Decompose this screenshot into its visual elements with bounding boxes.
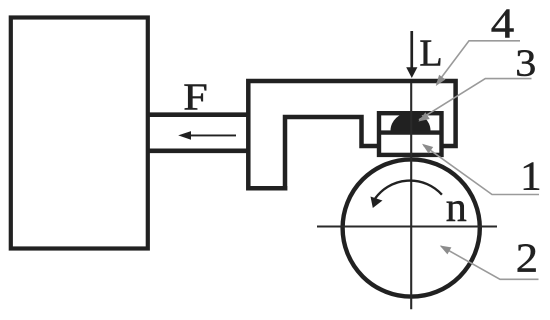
leader arrowhead 4 <box>436 75 446 86</box>
leader line 1 <box>424 145 540 194</box>
loading frame 4 inner path <box>285 117 379 191</box>
svg-text:2: 2 <box>516 235 538 281</box>
force F arrow <box>178 131 236 140</box>
leader line 2 <box>441 246 539 279</box>
holder box <box>379 113 442 155</box>
push rod upper wire <box>148 112 250 117</box>
leader line 3 <box>419 79 532 120</box>
crosshair horizontal <box>317 226 497 228</box>
svg-text:1: 1 <box>520 152 542 198</box>
disc 2 circle <box>343 159 480 296</box>
push rod lower wire <box>148 149 250 154</box>
ball 3 dome <box>391 112 431 130</box>
svg-text:3: 3 <box>515 42 536 84</box>
crosshair vertical <box>410 83 412 309</box>
svg-text:4: 4 <box>491 2 515 48</box>
rotation arrowhead <box>371 197 383 209</box>
svg-text:n: n <box>446 185 467 231</box>
load L arrow <box>406 31 417 78</box>
leader line 4 <box>437 41 521 84</box>
leader arrowhead 1 <box>422 144 433 154</box>
holder shelf <box>379 130 442 134</box>
loading frame 4 outer path <box>248 81 455 188</box>
leader arrowhead 3 <box>418 112 429 121</box>
svg-text:F: F <box>183 76 208 118</box>
svg-text:L: L <box>419 33 442 75</box>
drive unit box <box>11 18 148 249</box>
rotation arrow n arc <box>374 181 442 200</box>
leader arrowhead 2 <box>440 246 452 255</box>
